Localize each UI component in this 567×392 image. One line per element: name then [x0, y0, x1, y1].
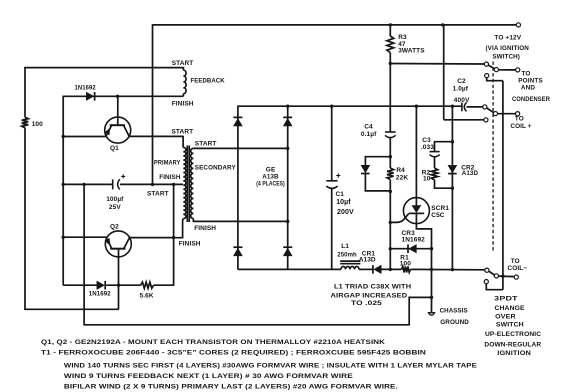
svg-text:OVER: OVER — [495, 313, 516, 320]
diode bridge bottom-right GE A13B — [283, 246, 292, 248]
wire Q1 emitter row — [63, 136, 107, 138]
switch pole1 lower contact — [485, 74, 489, 78]
svg-text:100: 100 — [400, 261, 411, 268]
node CR3 row left junction — [389, 247, 392, 250]
node CR3 right junction — [430, 247, 433, 250]
switch linkage dashed — [492, 62, 494, 253]
wire left rail upper — [24, 67, 26, 117]
transformer T1 primary top lead — [182, 136, 184, 148]
node snubber top junction — [451, 140, 454, 143]
wire rail to C2 — [460, 105, 462, 107]
transistor Q2 collector diagonal — [124, 238, 130, 249]
svg-text:GE: GE — [266, 166, 276, 173]
switch pole1 common contact — [484, 62, 488, 66]
capacitor C2 curved plate — [464, 102, 466, 111]
wire bottom rail — [238, 268, 341, 270]
resistor R1 — [402, 266, 411, 272]
node Q2 base-diode junction — [117, 284, 120, 287]
node CR2 top junction — [451, 105, 454, 108]
wire throw3 to terminal — [499, 275, 515, 278]
wire rail L1-CR1 — [359, 268, 373, 270]
transformer T1 secondary winding — [191, 148, 194, 218]
terminal TO +12V circle — [516, 23, 520, 27]
svg-text:1N1692: 1N1692 — [75, 85, 97, 92]
node bridge j right — [286, 105, 289, 108]
diode CR3 1N1692 — [409, 245, 416, 253]
resistor R3 lead — [389, 25, 391, 36]
node secondary start junction — [286, 147, 289, 150]
svg-text:10µf: 10µf — [336, 199, 351, 206]
svg-text:Q1: Q1 — [110, 145, 119, 152]
wire bias row — [63, 284, 97, 286]
transistor Q1 circle — [105, 117, 131, 143]
node cap row j1 — [151, 183, 154, 186]
transistor Q1 base lead — [117, 96, 119, 124]
diode 1N1692 top — [86, 92, 93, 100]
svg-text:.033: .033 — [421, 144, 434, 151]
svg-text:(4 PLACES): (4 PLACES) — [256, 181, 285, 188]
terminal TO POINTS circle — [516, 68, 520, 72]
thyristor SCR1 gate lead — [390, 214, 408, 223]
wire pole2 lower throw feed — [444, 119, 484, 121]
inductor L1 core — [340, 260, 360, 262]
svg-text:SWITCH): SWITCH) — [492, 54, 520, 61]
node SCR gate junction — [389, 221, 392, 224]
svg-text:(VIA IGNITION: (VIA IGNITION — [485, 45, 529, 52]
wire CR3 row — [390, 248, 431, 250]
node cap row j0 — [82, 183, 85, 186]
transistor Q2 base lead — [118, 249, 120, 310]
svg-text:FINISH: FINISH — [194, 225, 216, 232]
svg-text:3PDT: 3PDT — [494, 296, 518, 303]
diode bridge top-right GE A13B — [283, 116, 292, 118]
thyristor SCR1 cathode bar — [409, 212, 425, 214]
wire cap row left — [63, 183, 113, 185]
wire feedback start row — [24, 67, 183, 69]
capacitor 100uF curved plate — [118, 179, 120, 189]
svg-text:START: START — [147, 191, 169, 198]
svg-text:C1: C1 — [336, 191, 345, 198]
wire rail R1-switch — [411, 268, 485, 270]
transistor Q2 base bar — [110, 248, 125, 250]
transformer T1 feedback winding — [182, 67, 184, 70]
capacitor C3 curved plate — [430, 155, 440, 157]
wire vertical bias column — [62, 96, 64, 286]
svg-text:WIND 140 TURNS SEC FIRST (4 LA: WIND 140 TURNS SEC FIRST (4 LAYERS) #30A… — [64, 362, 478, 369]
wire snubber branch — [435, 142, 453, 189]
wire C4-R4 — [389, 137, 391, 168]
transistor Q1 collector diagonal — [124, 126, 129, 137]
thyristor SCR1 cathode lead — [416, 213, 431, 248]
wire top +12V rail — [153, 24, 517, 26]
wire bridge right vertical — [287, 106, 289, 270]
svg-text:200V: 200V — [337, 209, 354, 216]
wire bottom return horizontal — [84, 324, 409, 326]
svg-text:AND: AND — [521, 84, 535, 91]
wire left supply vertical — [152, 24, 154, 184]
switch pole3 lever — [489, 271, 495, 275]
resistor R3 — [387, 36, 394, 53]
svg-text:WIND 9 TURNS FEEDBACK NEXT (1: WIND 9 TURNS FEEDBACK NEXT (1 LAYER) # 3… — [64, 373, 354, 380]
switch pole3 common contact — [485, 268, 489, 272]
svg-text:POINTS: POINTS — [518, 77, 543, 84]
node Q1 base junction — [116, 95, 119, 98]
node j3 — [62, 236, 65, 239]
wire bias row mid — [106, 284, 140, 286]
switch pole2 lever — [487, 108, 494, 113]
switch pole3 throw contact — [494, 274, 498, 278]
svg-text:START: START — [172, 60, 194, 67]
capacitor C1 curved plate — [326, 186, 337, 188]
node junction R3 top — [389, 23, 392, 26]
thyristor SCR1 anode lead — [415, 106, 417, 205]
svg-text:25V: 25V — [109, 204, 121, 211]
node return junction — [430, 296, 433, 299]
svg-text:L1: L1 — [341, 243, 349, 250]
capacitor C4 curved plate — [385, 135, 396, 137]
svg-text:1N1692: 1N1692 — [402, 237, 426, 244]
svg-text:100: 100 — [32, 121, 43, 128]
transformer T1 core — [186, 146, 188, 223]
terminal TO COIL+ circle — [516, 112, 520, 116]
wire secondary start row — [193, 147, 288, 149]
capacitor 100uF plus plate — [112, 179, 114, 189]
svg-text:UP-ELECTRONIC: UP-ELECTRONIC — [485, 331, 542, 338]
svg-text:CHANGE: CHANGE — [495, 305, 526, 312]
svg-text:TO: TO — [515, 115, 524, 122]
transformer T1 secondary bottom lead — [193, 219, 288, 222]
svg-text:22K: 22K — [396, 174, 408, 181]
node diode box top junction — [389, 155, 392, 158]
diode clamp (box) — [361, 165, 370, 172]
wire pole3 lower jog — [486, 284, 503, 290]
node C1 top junction — [330, 105, 333, 108]
node chassis rail junction — [430, 268, 433, 271]
svg-text:3WATTS: 3WATTS — [398, 48, 425, 55]
transistor Q2 emitter diagonal — [106, 237, 111, 248]
diode bridge top-left GE A13B — [233, 116, 242, 118]
svg-text:A13D: A13D — [462, 170, 479, 177]
wire R3-C4 vertical — [389, 53, 391, 133]
thyristor SCR1 triangle — [412, 205, 422, 213]
svg-text:1N1692: 1N1692 — [89, 291, 111, 298]
svg-text:DOWN-REGULAR: DOWN-REGULAR — [484, 342, 541, 349]
wire switch feed vertical — [443, 25, 445, 120]
svg-text:FEEDBACK: FEEDBACK — [191, 78, 225, 85]
transistor Q2 circle — [105, 231, 131, 257]
capacitor C2 left plate — [461, 103, 463, 112]
switch pole2 throw contact — [493, 112, 497, 116]
wire C2 to pole2 — [467, 106, 483, 108]
node secondary finish junction — [286, 220, 289, 223]
svg-text:FINISH: FINISH — [172, 100, 194, 107]
svg-text:IGNITION: IGNITION — [497, 350, 531, 357]
switch pole2 common contact — [483, 105, 487, 109]
svg-text:START: START — [172, 129, 194, 136]
node Q2 collector junction — [172, 236, 175, 239]
svg-text:BIFILAR WIND (2 X 9 TURNS) PR: BIFILAR WIND (2 X 9 TURNS) PRIMARY LAST … — [64, 384, 398, 391]
svg-text:SECONDARY: SECONDARY — [195, 165, 237, 172]
terminal TO COIL- circle — [514, 275, 518, 279]
svg-text:A13D: A13D — [359, 257, 376, 264]
resistor R4 — [387, 168, 394, 179]
wire snubber return vertical — [83, 184, 85, 326]
transistor Q1 emitter diagonal — [106, 126, 111, 137]
wire pole1 lower jog — [487, 78, 503, 81]
node CR2 bottom rail junction — [451, 268, 454, 271]
svg-text:C2: C2 — [457, 78, 466, 85]
svg-text:TO +12V: TO +12V — [494, 34, 521, 41]
svg-text:C4: C4 — [364, 123, 373, 130]
svg-text:0.1µf: 0.1µf — [361, 131, 377, 138]
wire bottom left return — [24, 308, 119, 310]
capacitor C1 top plate — [326, 180, 337, 182]
svg-text:R4: R4 — [396, 167, 405, 174]
node j1 — [62, 135, 65, 138]
wire bridge mid rail — [238, 105, 461, 107]
node R4 column bottom junction — [389, 268, 392, 271]
diode bridge bottom-left GE A13B — [233, 246, 242, 248]
node junction switch-feed top — [441, 23, 444, 26]
svg-text:SWITCH: SWITCH — [496, 322, 524, 329]
svg-text:A13B: A13B — [262, 174, 279, 181]
wire R4 bottom — [389, 180, 391, 270]
wire cap row right — [120, 183, 183, 185]
svg-text:100µf: 100µf — [106, 196, 124, 203]
svg-text:C5C: C5C — [431, 212, 445, 219]
svg-text:TO: TO — [511, 258, 520, 265]
svg-text:TO .025: TO .025 — [351, 300, 382, 307]
wire CR2 vertical — [451, 106, 453, 269]
switch pole3 lower contact — [484, 280, 488, 284]
svg-text:5.6K: 5.6K — [140, 293, 154, 300]
wire Q2 collector row — [130, 237, 175, 239]
wire left rail lower — [24, 128, 26, 310]
node cap row j2 — [172, 183, 175, 186]
transistor Q1 base bar — [110, 124, 125, 126]
wire bias row right — [154, 284, 175, 286]
wire bypass vertical — [502, 81, 504, 290]
inductor L1 winding — [341, 267, 359, 270]
node R3 switch junction — [389, 62, 392, 65]
svg-text:CONDENSER: CONDENSER — [512, 96, 550, 103]
diode CR1 A13D — [374, 265, 381, 273]
wire chassis vertical — [431, 249, 433, 313]
chassis ground symbol — [428, 313, 436, 315]
transistor Q1 emitter arrow — [104, 128, 110, 136]
node bypass throw junction — [501, 275, 504, 278]
wire throw2 to terminal — [498, 113, 516, 115]
wire diode box — [365, 157, 390, 191]
wire rail CR1-R1 — [381, 268, 401, 270]
wire Q1 base row — [63, 95, 183, 97]
wire Q2 emitter row — [63, 236, 108, 238]
node snubber bottom junction — [451, 187, 454, 190]
resistor 100 — [22, 117, 29, 128]
label plus C1 — [336, 173, 340, 177]
transformer T1 primary bottom lead — [174, 219, 183, 238]
svg-text:T1 - FERROXOCUBE 206F440 - 3C: T1 - FERROXOCUBE 206F440 - 3C5”E” CORES … — [41, 350, 426, 357]
svg-text:COIL +: COIL + — [510, 123, 531, 130]
transistor Q2 emitter arrow — [105, 238, 111, 246]
switch pole1 throw contact — [494, 68, 498, 72]
wire bridge left vertical — [237, 106, 239, 270]
svg-text:FINISH: FINISH — [179, 240, 201, 247]
wire return riser — [409, 297, 431, 325]
switch pole1 lever — [488, 65, 494, 69]
capacitor C1 lead bottom — [331, 188, 333, 270]
svg-text:SCR1: SCR1 — [431, 205, 449, 212]
label plus 100uF — [121, 174, 125, 178]
svg-text:GROUND: GROUND — [440, 319, 469, 326]
switch pole2 lower contact — [484, 118, 488, 122]
svg-text:FINISH: FINISH — [159, 174, 181, 181]
svg-text:400V: 400V — [454, 97, 470, 104]
svg-text:10: 10 — [423, 175, 431, 182]
svg-text:Q1, Q2 - GE2N2192A - MOUNT EAC: Q1, Q2 - GE2N2192A - MOUNT EACH TRANSIST… — [41, 339, 385, 346]
svg-text:AIRGAP INCREASED: AIRGAP INCREASED — [331, 292, 408, 299]
svg-text:1.0µf: 1.0µf — [453, 86, 469, 93]
resistor R2 — [431, 168, 437, 180]
capacitor C3 top plate — [430, 151, 440, 153]
svg-text:CHASSIS: CHASSIS — [440, 307, 469, 314]
capacitor C4 top plate — [385, 131, 396, 133]
wire Q1 collector row — [129, 135, 183, 137]
wire collector feedback vertical — [173, 184, 175, 285]
diode CR2 A13D — [448, 165, 457, 172]
node diode box bottom junction — [389, 190, 392, 193]
resistor 5.6K — [141, 282, 154, 288]
node SCR anode junction — [415, 105, 418, 108]
thyristor SCR1 circle — [403, 198, 429, 224]
wire throw1 to terminal — [499, 69, 516, 71]
capacitor C1 lead — [331, 106, 333, 181]
node j2 — [62, 183, 65, 186]
svg-text:Q2: Q2 — [110, 223, 119, 230]
svg-text:PRIMARY: PRIMARY — [154, 159, 181, 166]
diode 1N1692 bottom — [97, 281, 104, 289]
wire pole1 feed — [390, 63, 484, 66]
svg-text:L1 TRIAD C38X WITH: L1 TRIAD C38X WITH — [334, 284, 412, 291]
svg-text:START: START — [195, 140, 217, 147]
svg-text:250mh: 250mh — [337, 251, 357, 258]
transformer T1 primary winding — [183, 148, 186, 219]
svg-text:COIL−: COIL− — [508, 265, 528, 272]
